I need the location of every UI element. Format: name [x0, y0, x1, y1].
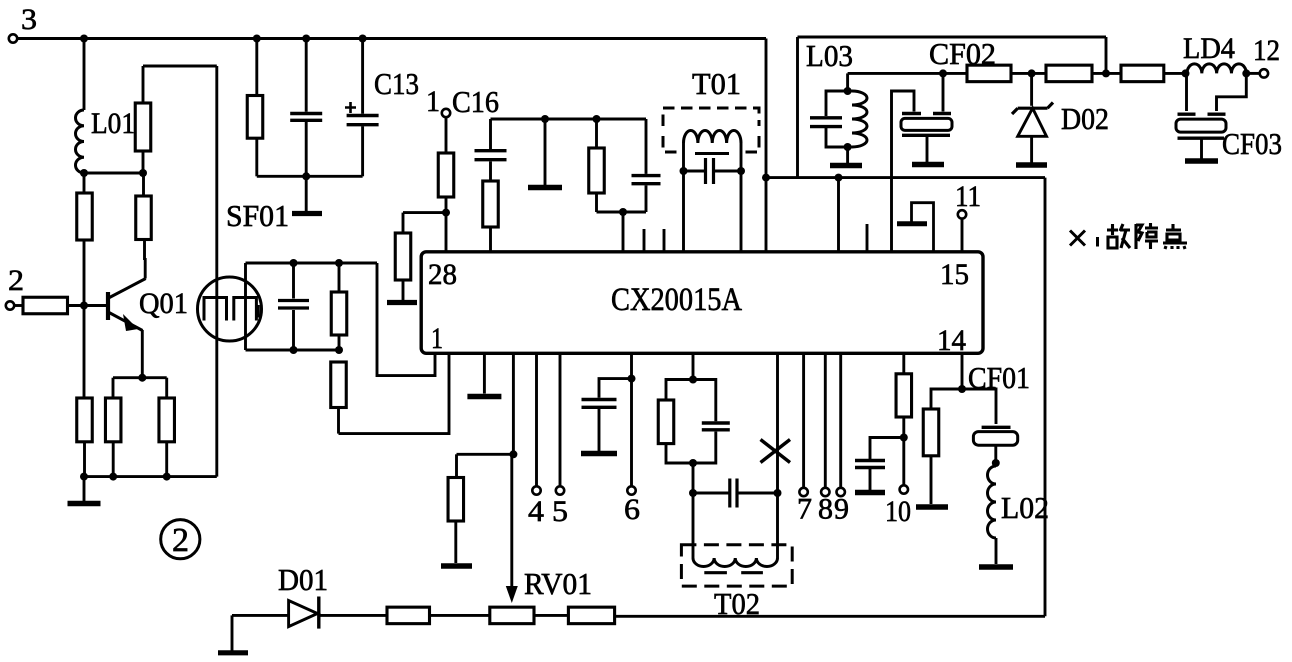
inductor L01 [76, 110, 85, 173]
potentiometer RV01 [490, 607, 534, 624]
wire IF bus horizontal [766, 176, 1045, 179]
resistor filter shunt [338, 263, 341, 292]
ground SF01 [305, 176, 308, 211]
junction quad tank bottom [689, 459, 697, 467]
junction bus / pin tap [835, 174, 843, 182]
capacitor AF [599, 379, 632, 398]
svg-text:CF03: CF03 [1222, 126, 1282, 161]
resistor row R2 [1046, 65, 1092, 82]
svg-text:T01: T01 [692, 66, 741, 101]
resistor under C16 [483, 181, 499, 227]
ground pin stub [483, 353, 486, 393]
resistor AGC [402, 213, 405, 233]
inductor L02 [988, 466, 997, 538]
capacitor C16 [489, 119, 492, 149]
wire rail drop to IC [765, 39, 768, 253]
svg-text:11: 11 [955, 180, 981, 213]
junction L02 top [992, 459, 1000, 467]
capacitor osc branch [645, 119, 648, 174]
wire filter box bottom [246, 349, 340, 352]
node 1 terminal [442, 109, 450, 117]
wire D01 to R [319, 614, 387, 617]
filter CF01 [962, 389, 996, 424]
transformer T01 dashed box [663, 108, 759, 152]
wire feedback vertical to SF01 [215, 66, 218, 477]
resistor decoupling [255, 39, 258, 96]
wire emitter resistor taps [112, 378, 115, 398]
filter SF01 tick [257, 305, 260, 318]
svg-text:D02: D02 [1061, 101, 1109, 136]
svg-text:SF01: SF01 [226, 198, 289, 233]
junction volume divider [509, 450, 517, 458]
pin stub nc2 [663, 229, 666, 252]
wire CF02 left to IC [890, 178, 893, 252]
capacitor L03 parallel [826, 91, 848, 116]
svg-text:5: 5 [552, 495, 568, 528]
junction LD4 right [1242, 69, 1250, 77]
resistor row R3 [1121, 65, 1164, 82]
ground D01 return [231, 615, 234, 650]
svg-text:L01: L01 [91, 107, 135, 140]
ground left bus [83, 477, 86, 502]
capacitor bypass [305, 39, 308, 112]
transformer T02 core dashes [704, 571, 727, 574]
junction rail / decoupling R [253, 35, 261, 43]
wire T01 pins to IC [682, 171, 685, 252]
ground volume divider [441, 563, 472, 568]
svg-text:14: 14 [937, 324, 966, 357]
pin stub nc3 [866, 224, 869, 252]
wire feedback top [143, 65, 217, 68]
svg-text:7: 7 [797, 493, 812, 526]
svg-text:C13: C13 [374, 66, 419, 101]
junction rail / IF bus [762, 174, 770, 182]
junction L03 bottom [844, 143, 852, 151]
wire base [68, 304, 109, 307]
transformer T01 winding [682, 143, 685, 171]
node 8 terminal [824, 353, 827, 488]
svg-text:RV01: RV01 [524, 566, 592, 601]
wire wiper arrow to RV01 [510, 454, 513, 593]
wire L01 top [83, 39, 86, 111]
resistor bias lower-left [83, 306, 86, 399]
resistor bottom R2 [568, 607, 614, 624]
svg-text:28: 28 [428, 258, 457, 291]
fault legend mark [1070, 231, 1085, 246]
svg-text:10: 10 [885, 495, 911, 528]
svg-text:9: 9 [834, 493, 849, 526]
wire top supply rail [17, 37, 766, 40]
transformer T02 dashed box [681, 545, 792, 586]
capacitor ripple [870, 438, 904, 460]
filter CF03 resonator [1185, 73, 1188, 111]
ground CF02 [912, 162, 944, 167]
resistor collector load lower [142, 173, 145, 196]
diode D01 [289, 601, 318, 627]
wire right box vertical [1044, 178, 1047, 617]
svg-text:8: 8 [818, 493, 833, 526]
inductor LD4 [1187, 64, 1246, 74]
junction AGC loop [1102, 69, 1110, 77]
resistor emitter R right [159, 398, 175, 442]
capacitor C13 electrolytic [361, 39, 364, 114]
svg-text:12: 12 [1253, 34, 1280, 67]
svg-text:6: 6 [624, 493, 640, 526]
diode D02 zener [1030, 73, 1033, 105]
junction rail / C13 [359, 35, 367, 43]
svg-text:2: 2 [172, 522, 189, 559]
resistor bottom R1 [387, 607, 430, 624]
svg-text:L02: L02 [1001, 490, 1049, 525]
node 4 terminal [535, 353, 538, 486]
svg-text:L03: L03 [806, 38, 853, 73]
svg-text:1: 1 [426, 85, 440, 118]
wire L01 bottom junction [80, 169, 88, 177]
svg-text:15: 15 [940, 258, 969, 291]
capacitor quad coupling [693, 492, 730, 495]
ground L02 [995, 538, 998, 564]
svg-text:1: 1 [431, 322, 443, 355]
transformer T01 core [695, 152, 729, 155]
wire collector [144, 258, 147, 279]
filter SF01 symbol [204, 298, 256, 321]
junction quad tank top [692, 353, 695, 379]
resistor to pin 1 [331, 362, 347, 408]
wire CF02 row start [848, 72, 967, 75]
svg-text:CX20015A: CX20015A [611, 282, 742, 318]
svg-text:CF02: CF02 [929, 36, 996, 71]
node 9 terminal [839, 353, 842, 488]
node 10 terminal [902, 438, 905, 486]
svg-text:D01: D01 [278, 562, 328, 597]
IC U1 CX20015A body [421, 252, 983, 353]
wire osc branch bottom [597, 211, 624, 214]
junction CF01 node [958, 385, 966, 393]
resistor CF01 shunt [931, 389, 962, 409]
wire to IC pin [622, 212, 625, 252]
wire AGC loop top [798, 36, 1107, 39]
wire bus tap to IC [837, 178, 840, 252]
capacitor T01 resonating [680, 167, 688, 175]
ground D02 [1016, 162, 1047, 167]
junction top rail / L01 branch [80, 35, 88, 43]
wire C16 group top [491, 118, 647, 121]
junction rail / bypass cap [302, 35, 310, 43]
wire ground bus left [84, 475, 217, 478]
node 12 terminal [1246, 72, 1259, 75]
wire emitter [141, 330, 144, 378]
node 2 terminal [6, 301, 14, 309]
svg-text:C16: C16 [452, 84, 499, 119]
capacitor filter shunt [292, 263, 295, 299]
junction LD4 left [1182, 69, 1190, 77]
fault mark X on quad pin [761, 440, 791, 463]
junction base wire / bias chain [80, 302, 88, 310]
node 3 terminal [9, 34, 17, 42]
junction T02 left [689, 489, 697, 497]
inductor L03 [852, 91, 867, 147]
svg-text:Q01: Q01 [139, 287, 188, 320]
resistor emitter R left [105, 398, 121, 442]
resistor ripple [902, 353, 905, 374]
ground AGC resistor [402, 280, 405, 301]
filter SF01 circle [198, 277, 262, 341]
resistor collector load upper [142, 151, 145, 173]
wire pin 14 down [961, 353, 964, 389]
resistor volume divider [455, 454, 458, 477]
filter CF02 resonator [942, 73, 945, 111]
junction input / AGC resistor [442, 209, 450, 217]
pin stub nc1 [643, 229, 646, 252]
resistor base series [14, 304, 23, 307]
node 6 terminal [630, 353, 633, 486]
resistor osc branch [595, 119, 598, 148]
junction T02 right [774, 489, 782, 497]
wire quad pin with fault [776, 353, 779, 493]
junction AF cap tap [628, 375, 636, 383]
wire route to pin 28 region [377, 263, 435, 376]
resistor input [445, 117, 448, 153]
svg-text:3: 3 [21, 3, 37, 36]
wire volume pin [512, 353, 515, 454]
junction emitter node [138, 374, 146, 382]
wire AGC loop drop [1105, 37, 1108, 73]
resistor bias upper-left [83, 173, 86, 193]
svg-text:2: 2 [8, 264, 24, 297]
wire bottom bus [615, 615, 1045, 618]
junction D02 tap [1028, 69, 1036, 77]
svg-text:4: 4 [528, 495, 544, 528]
capacitor quad tank [693, 380, 716, 422]
wire filter box top [246, 262, 378, 265]
resistor quad tank [666, 380, 693, 401]
legend text fault-point chinese [1107, 224, 1130, 248]
junction L03 top [844, 87, 852, 95]
junction ripple cap tap [900, 434, 908, 442]
ground CF03 [1185, 158, 1218, 163]
ground L03 [846, 147, 849, 163]
wire route to pin 1 [339, 353, 450, 433]
wire filter box left edge [244, 263, 247, 350]
node figure 2 circled [161, 520, 200, 559]
junction SF01 ground tap [302, 172, 310, 180]
pin stub mute [912, 203, 934, 252]
transformer T02 winding [692, 493, 695, 558]
node 5 terminal [559, 353, 562, 486]
wire D01 anode [232, 614, 289, 617]
resistor row R1 [967, 65, 1011, 82]
wire AGC loop left edge [796, 37, 799, 178]
transistor Q01 [106, 292, 110, 320]
wire C13 group bottom [257, 175, 363, 178]
node 7 terminal [802, 353, 805, 488]
wire [534, 614, 568, 617]
junction CF02 top right [939, 69, 947, 77]
wire [430, 614, 490, 617]
ground CF01 shunt resistor [916, 504, 948, 509]
ground C16 mid [544, 119, 547, 186]
svg-text:LD4: LD4 [1183, 32, 1235, 65]
